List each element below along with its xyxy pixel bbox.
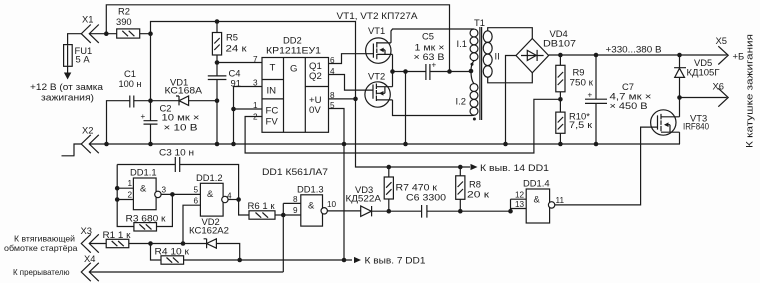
node R9 R10 divider tap (558, 97, 563, 102)
svg-text:зажигания): зажигания) (41, 93, 94, 103)
svg-text:FC: FC (266, 106, 279, 117)
resistor R6 (249, 211, 283, 219)
svg-text:20 к: 20 к (467, 189, 490, 200)
wire VD3 to C6 and R7 R8 (372, 210, 511, 212)
svg-text:FV: FV (266, 117, 279, 128)
svg-text:11: 11 (556, 196, 565, 205)
node X1/+12V junction (104, 31, 109, 36)
svg-text:2: 2 (128, 191, 133, 200)
svg-text:IRF840: IRF840 (683, 121, 709, 132)
svg-text:II: II (495, 51, 500, 62)
svg-text:5: 5 (330, 101, 335, 110)
svg-text:I.2: I.2 (456, 96, 466, 107)
svg-text:VT2: VT2 (368, 71, 385, 82)
svg-text:+Б: +Б (733, 51, 745, 62)
svg-text:390: 390 (116, 16, 132, 27)
wire DD2 pin 4 to VT2 gate (329, 75, 374, 91)
capacitor C6 (422, 205, 427, 218)
svg-text:DD1.3: DD1.3 (297, 184, 324, 195)
svg-text:DD1.1: DD1.1 (130, 167, 157, 178)
node bus R10 col (558, 142, 563, 147)
wire R4 branch (151, 244, 162, 261)
capacitor C7 (585, 55, 607, 144)
wire VT3 gate from DD1.4 (555, 127, 658, 205)
svg-text:С6 3300: С6 3300 (406, 192, 446, 203)
ground (62, 144, 82, 156)
node pin1/pin3 tie (231, 107, 236, 112)
node R5 top (215, 19, 220, 24)
svg-text:4: 4 (330, 67, 335, 76)
svg-text:С3 10 н: С3 10 н (159, 147, 194, 158)
wire C1 to VD1 (134, 100, 217, 102)
svg-text:R3 680 к: R3 680 к (126, 213, 167, 224)
wire +12V top rail (106, 5, 449, 72)
svg-text:T1: T1 (474, 17, 485, 28)
zener VD1 (176, 96, 189, 105)
node sources junction (390, 69, 395, 74)
svg-text:9: 9 (293, 206, 298, 215)
node R4 branch (148, 241, 153, 246)
node bus C7 col (594, 142, 599, 147)
svg-text:+12 В (от замка: +12 В (от замка (30, 82, 103, 92)
wire DD2 pin 3 and pin 1 tied to bus (234, 87, 263, 145)
wire DD1.3 out (327, 210, 360, 212)
arrow to DD1 pin 7 (354, 257, 361, 263)
wire X6 (680, 97, 727, 99)
svg-text:DD1 К561ЛА7: DD1 К561ЛА7 (262, 166, 328, 177)
svg-text:X6: X6 (713, 81, 724, 92)
node pin8 on rail drop (353, 97, 358, 102)
svg-text:X5: X5 (716, 35, 727, 46)
svg-text:R6 1 к: R6 1 к (248, 200, 276, 211)
node DD1.1 pin2 (115, 197, 120, 202)
capacitor C4 (208, 63, 227, 145)
capacitor C2 (144, 34, 158, 144)
node R8 bottom (458, 209, 463, 214)
node bus rectifier minus col (503, 142, 508, 147)
svg-text:К катушке зажигания: К катушке зажигания (745, 34, 755, 148)
resistor R8 (456, 167, 465, 211)
connector X6 (718, 88, 728, 106)
svg-text:2: 2 (253, 113, 258, 122)
svg-text:&: & (207, 188, 214, 199)
wire 6.8V rail (R2 out, via R5 top, down to DD1 pin14 line) (151, 22, 471, 168)
svg-text:5 А: 5 А (76, 54, 91, 65)
svg-text:3: 3 (162, 186, 167, 195)
svg-text:К втягивающей: К втягивающей (14, 234, 75, 244)
node R2 output (148, 31, 153, 36)
svg-text:КС168А: КС168А (165, 85, 203, 96)
svg-text:DD1.2: DD1.2 (196, 172, 223, 183)
capacitor C3 (117, 157, 238, 200)
gate DD1.4 (526, 189, 555, 223)
node VD1 left (148, 98, 153, 103)
resistor R5 (212, 22, 221, 63)
svg-text:T: T (270, 63, 276, 74)
node C7 top (594, 53, 599, 58)
svg-text:+330...380 В: +330...380 В (606, 44, 662, 55)
wire X1 to R2 with +12V tap (89, 33, 150, 35)
wire X4 to DD1.3 inputs (89, 271, 283, 273)
connector X4 (81, 263, 99, 281)
wire ground bus (89, 143, 680, 145)
node feedback R3 (170, 192, 175, 197)
node bus C5 col (403, 142, 408, 147)
svg-text:× 63 В: × 63 В (414, 51, 445, 62)
svg-text:R5: R5 (226, 32, 238, 43)
wire DD1.2 pin6 (183, 205, 200, 243)
svg-text:+: + (432, 61, 437, 70)
node T1 primary center tap (469, 69, 474, 74)
node R9 top (558, 53, 563, 58)
svg-text:+: + (588, 91, 593, 100)
svg-text:10: 10 (327, 200, 337, 209)
svg-text:4: 4 (227, 192, 232, 201)
svg-text:24 к: 24 к (226, 43, 248, 54)
svg-text:1: 1 (253, 101, 258, 110)
svg-text:DB107: DB107 (543, 38, 576, 49)
connector X1 (81, 25, 99, 43)
transistor VT3 (651, 110, 680, 135)
svg-text:I.1: I.1 (457, 38, 467, 49)
svg-text:обмотке стартёра: обмотке стартёра (4, 243, 78, 253)
transistor VT1 (366, 38, 393, 63)
wire rectifier minus to bus (506, 56, 517, 145)
T1 phasing dot I.1 (471, 63, 474, 66)
wire VT3 source to bus (679, 132, 681, 144)
resistor R9 (556, 55, 565, 112)
wire X3 to R1 (89, 243, 106, 245)
wire HV rail to X5 (549, 54, 727, 56)
resistor R3 (134, 223, 157, 231)
svg-text:X4: X4 (84, 253, 95, 264)
svg-text:К прерывателю: К прерывателю (13, 267, 70, 277)
fuse FU1 (64, 45, 73, 67)
wire DD2 pin 6 to VT1 gate (329, 54, 374, 64)
svg-text:+: + (141, 112, 146, 121)
diode VD3 (361, 206, 372, 216)
svg-text:VT1: VT1 (368, 25, 385, 36)
wire DD2 pin 7 (217, 62, 262, 64)
svg-text:8: 8 (293, 195, 298, 204)
svg-text:1: 1 (128, 179, 133, 188)
svg-text:КД522А: КД522А (346, 193, 382, 204)
svg-text:6: 6 (330, 56, 335, 65)
wire node A (R1,R4,VD2,pin6) (129, 243, 206, 245)
node bus C4 col (215, 142, 220, 147)
resistor R10 (556, 112, 565, 144)
svg-text:× 450 В: × 450 В (610, 100, 648, 111)
wire C5 node to ground bus (405, 72, 407, 145)
node R7 top (387, 165, 392, 170)
wire DD2 pin 8 +U (329, 98, 356, 100)
wire to R6 (239, 200, 249, 216)
svg-text:КД105Г: КД105Г (687, 67, 720, 78)
T1 phasing dot I.2 (473, 118, 476, 121)
svg-text:12: 12 (515, 191, 525, 200)
svg-text:3: 3 (253, 79, 258, 88)
node pin6 branch (181, 241, 186, 246)
wire DD1.2 out node (228, 199, 239, 201)
wire VT3 drain (679, 98, 681, 117)
svg-text:К выв. 14 DD1: К выв. 14 DD1 (480, 162, 549, 173)
node VD5 top (677, 53, 682, 58)
wire DD1 pin 7 net (184, 259, 352, 261)
node C5 wire to bus drop (403, 69, 408, 74)
svg-text:5: 5 (194, 186, 199, 195)
connector X5 (718, 46, 728, 64)
wire DD1.4 inputs (511, 199, 527, 211)
node bus pin3/1 col (231, 142, 236, 147)
svg-text:91: 91 (231, 78, 241, 89)
resistor R1 (106, 239, 129, 247)
node pin7 junction (215, 60, 220, 65)
wire T1 II bottom to rectifier (488, 73, 533, 83)
wire DD1.3 inputs tie (283, 203, 301, 272)
wire X1 to FU1 (68, 34, 82, 74)
connector X2 (81, 135, 99, 153)
node DD1.3 inputs (281, 213, 286, 218)
node C4 bottom on VD1 wire (215, 98, 220, 103)
node R8 top (458, 165, 463, 170)
node bus pin5 col (342, 142, 347, 147)
transformer T1 winding I.1 (470, 29, 478, 71)
arrow to DD1 pin 14 (471, 164, 478, 170)
node DD2 0V on pin7 net (342, 258, 347, 263)
node X6 / VT3 drain (677, 95, 682, 100)
svg-text:&: & (534, 194, 541, 205)
svg-text:&: & (140, 183, 147, 194)
svg-text:Q2: Q2 (309, 71, 322, 82)
svg-text:7,5 к: 7,5 к (569, 119, 593, 130)
node bus C2 col (148, 142, 153, 147)
svg-text:× 10 В: × 10 В (164, 122, 198, 133)
svg-text:X2: X2 (82, 125, 93, 136)
svg-text:КС162А2: КС162А2 (189, 225, 229, 236)
svg-text:DD1.4: DD1.4 (523, 178, 550, 189)
T1 core (480, 27, 482, 120)
connector X3 (81, 234, 99, 252)
svg-text:VT1, VT2 КП727А: VT1, VT2 КП727А (337, 10, 419, 21)
svg-text:7: 7 (253, 55, 258, 64)
wire VT1/VT2 sources to C5 left (393, 54, 426, 86)
svg-text:750 к: 750 к (570, 77, 594, 88)
svg-text:R4 10 к: R4 10 к (155, 246, 190, 257)
transistor VT2 (365, 82, 393, 107)
capacitor C5 (426, 64, 471, 80)
resistor R7 (384, 167, 393, 211)
wire DD2 pin 2 FV to divider tap (245, 99, 560, 153)
resistor R4 (161, 256, 184, 264)
svg-text:R1 1 к: R1 1 к (103, 229, 132, 240)
capacitor C1 (130, 96, 134, 108)
wire DD1.1 inputs (117, 165, 172, 227)
wire DD2 pin 5 0V to bus and DD1 pin7 net (329, 109, 345, 261)
svg-text:8: 8 (330, 91, 335, 100)
node C5 right to +12 rail (447, 69, 452, 74)
node VD2 on pin7 net (237, 258, 242, 263)
svg-text:0V: 0V (309, 105, 321, 116)
svg-text:X1: X1 (82, 14, 93, 25)
svg-text:&: & (308, 200, 315, 211)
svg-text:X3: X3 (81, 225, 92, 236)
svg-text:6: 6 (194, 197, 199, 206)
svg-text:C5: C5 (422, 31, 434, 42)
zener VD2 (204, 239, 217, 248)
transformer T1 winding I.2 (470, 71, 478, 115)
wire T1 II top to rectifier (488, 28, 533, 39)
svg-text:КР1211ЕУ1: КР1211ЕУ1 (266, 45, 321, 56)
node DD1.2 out (236, 197, 241, 202)
svg-text:К выв. 7 DD1: К выв. 7 DD1 (365, 255, 426, 266)
wire VD2 to pin7 net (216, 244, 239, 261)
svg-text:IN: IN (267, 86, 277, 97)
resistor R2 (117, 29, 140, 38)
diode VD5 (674, 55, 686, 98)
svg-text:100 н: 100 н (119, 78, 142, 89)
svg-text:G: G (290, 64, 297, 75)
wire VT2 drain to T1 I.2 (393, 100, 475, 116)
gate DD1.3 (301, 195, 328, 226)
svg-text:R2: R2 (118, 6, 130, 17)
transformer T1 winding II (483, 31, 492, 77)
IC DD2 box (262, 58, 329, 133)
arrow to +12V source (64, 73, 71, 80)
gate DD1.1 (133, 178, 161, 210)
node bus C1 col (104, 142, 109, 147)
wire VT1 drain to T1 I.1 (391, 29, 474, 43)
wire C1 left branch to ground bus (107, 101, 130, 144)
gate DD1.2 (200, 183, 228, 216)
node R7 bottom (387, 209, 392, 214)
node DD1.4 inputs (508, 209, 513, 214)
svg-text:13: 13 (515, 200, 525, 209)
wire DD1.1 out to DD1.2 (161, 193, 200, 195)
rectifier bridge VD4 (516, 39, 549, 73)
node DD1.1 pin1 (115, 186, 120, 191)
